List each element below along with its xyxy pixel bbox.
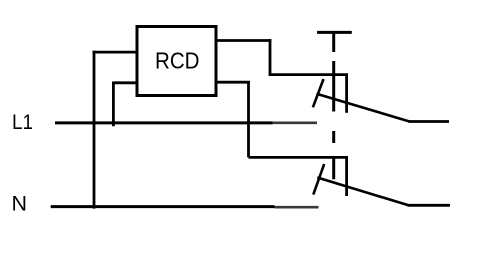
svg-text:L1: L1 xyxy=(12,111,33,134)
RCD box U1 xyxy=(137,27,216,96)
wire N line xyxy=(51,205,275,208)
svg-text:N: N xyxy=(12,192,28,216)
wire S1 fixed contact stub xyxy=(345,75,348,113)
wire vertical from lower-left pin down to L1 xyxy=(112,82,115,127)
wire vertical from upper-left pin down to N xyxy=(93,51,96,209)
wire RCD lower-left pin xyxy=(113,81,137,84)
linkage dashed segment 3 xyxy=(332,131,335,143)
wire vertical down from upper-right pin xyxy=(269,39,272,75)
switch S2 actuator slash xyxy=(313,164,324,195)
svg-text:RCD: RCD xyxy=(155,48,200,74)
switch S1 blade xyxy=(317,94,410,122)
wire horizontal to switch S2 input xyxy=(249,156,349,159)
actuator T bar xyxy=(317,31,352,34)
switch S2 blade xyxy=(317,178,408,206)
linkage dashed segment 4 xyxy=(332,157,335,179)
wire L1 line xyxy=(55,121,273,124)
wire S2 output xyxy=(408,204,451,207)
wire L1 contact segment (gray) xyxy=(273,122,318,125)
linkage dashed segment 1 xyxy=(332,33,335,52)
linkage dashed segment 2 xyxy=(332,61,335,112)
wire vertical down from lower-right pin xyxy=(247,81,250,157)
wire RCD upper-right pin xyxy=(216,39,271,42)
wire horizontal to switch S1 input xyxy=(269,73,348,76)
wire RCD upper-left pin xyxy=(93,51,138,54)
switch S1 actuator slash xyxy=(313,79,324,107)
wire S2 fixed contact stub xyxy=(345,157,348,196)
wire N contact segment (gray) xyxy=(275,206,319,209)
wire RCD lower-right pin xyxy=(216,81,250,84)
wire S1 output xyxy=(409,120,450,123)
